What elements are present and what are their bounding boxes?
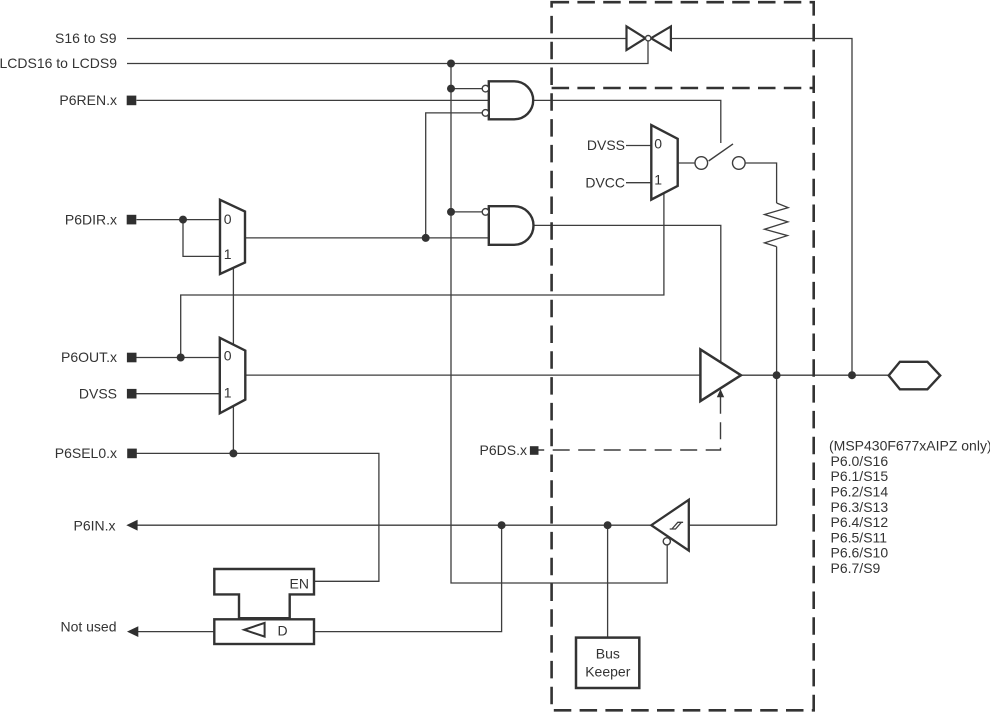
wire LCDS16 to LCDS9	[127, 41, 648, 63]
wire mux M1 output to AND U2 lower input	[245, 237, 489, 239]
wire mux M3 output to switch	[678, 162, 695, 164]
wire P6OUT branch to mux M3 select	[181, 194, 664, 358]
schmitt trigger input buffer U4	[651, 500, 689, 551]
wire S16 to S9 input	[127, 38, 626, 40]
junction LCDS line	[447, 60, 455, 68]
svg-text:P6.7/S9: P6.7/S9	[831, 560, 881, 576]
mux M3 (DVSS/DVCC pull select)	[651, 125, 677, 200]
wire select mux M2 to P6SEL line	[232, 406, 234, 453]
svg-text:P6OUT.x: P6OUT.x	[61, 349, 117, 365]
wire P6DIR branch to mux M1 input 1	[183, 220, 220, 257]
svg-text:1: 1	[224, 246, 232, 262]
AND gate U2 (driver enable)	[489, 206, 534, 245]
wire DVSS to mux M3 input 0	[626, 145, 651, 147]
wire bus keeper to P6IN line	[607, 525, 609, 637]
wire D latch to Not used arrow	[138, 631, 215, 633]
wire LCDS vertical to input buffer enable	[451, 64, 667, 584]
svg-text:P6.0/S16: P6.0/S16	[831, 453, 889, 469]
junction pad line / S16	[848, 371, 856, 379]
U1 input bubble bottom	[482, 110, 489, 117]
switch S1 right contact	[733, 157, 746, 170]
wire switch to resistor	[745, 163, 777, 203]
wire select mux M1 to mux M2	[232, 268, 234, 345]
svg-text:Not used: Not used	[60, 618, 116, 634]
svg-text:S16 to S9: S16 to S9	[55, 30, 117, 46]
svg-text:1: 1	[224, 385, 232, 401]
wire D latch input from pad line	[315, 525, 502, 631]
wire driver output pad line	[741, 374, 889, 376]
wire P6SEL0.x to latch EN	[137, 453, 379, 581]
svg-text:P6.1/S15: P6.1/S15	[831, 468, 889, 484]
terminal square DVSS	[127, 389, 137, 399]
wire S16 switch output to pad	[671, 39, 852, 376]
wire DVSS to mux M2 input 1	[137, 393, 220, 395]
dashed module boundary box	[552, 2, 814, 710]
wire LCDS to U2 top bubble	[451, 211, 482, 213]
terminal square P6DS	[530, 446, 539, 455]
svg-text:DVSS: DVSS	[79, 385, 117, 401]
bus keeper box	[576, 638, 639, 688]
U4 hysteresis symbol	[670, 522, 683, 529]
svg-text:P6DS.x: P6DS.x	[480, 442, 527, 458]
wire mux M2 output to output driver	[245, 374, 700, 376]
svg-text:P6.2/S14: P6.2/S14	[831, 484, 889, 500]
U4 enable bubble	[663, 538, 670, 545]
arrow Not used	[127, 626, 138, 637]
svg-text:Keeper: Keeper	[585, 664, 630, 680]
resistor R1	[765, 203, 789, 247]
analog switch S2 center circle	[646, 36, 651, 41]
wire P6OUT.x to mux M2 input 0	[137, 357, 220, 359]
svg-text:P6DIR.x: P6DIR.x	[65, 211, 117, 227]
wire DVCC to mux M3 input 1	[626, 182, 651, 184]
switch S1 left contact	[695, 157, 708, 170]
svg-text:P6REN.x: P6REN.x	[59, 92, 117, 108]
pad hexagon	[889, 362, 941, 390]
latch clock triangle	[244, 623, 264, 637]
terminal square P6DIR	[127, 215, 137, 225]
svg-text:Bus: Bus	[596, 646, 620, 662]
junction mux M1 output	[422, 234, 430, 242]
svg-text:P6.6/S10: P6.6/S10	[831, 545, 889, 561]
junction pad line / resistor	[773, 371, 781, 379]
junction P6IN / bus keeper	[604, 521, 612, 529]
svg-text:(MSP430F677xAIPZ only): (MSP430F677xAIPZ only)	[829, 437, 990, 453]
svg-text:P6.3/S13: P6.3/S13	[831, 499, 889, 515]
junction P6SEL	[229, 449, 237, 457]
U1 input bubble top	[482, 85, 489, 92]
wire P6IN.x line	[137, 524, 651, 526]
svg-text:LCDS16 to LCDS9: LCDS16 to LCDS9	[0, 55, 117, 71]
wire P6DIR.x to mux M1 input 0	[137, 219, 221, 221]
arrow P6DS into driver	[717, 389, 724, 397]
output driver U3	[700, 349, 741, 401]
svg-text:D: D	[278, 622, 288, 638]
svg-text:EN: EN	[290, 575, 309, 591]
wire resistor bottom to pad line and schmitt	[776, 247, 778, 526]
latch EN block (T shape)	[214, 569, 314, 618]
svg-text:DVSS: DVSS	[587, 137, 625, 153]
svg-text:0: 0	[654, 135, 662, 151]
svg-text:1: 1	[654, 172, 662, 188]
arrow P6IN	[126, 520, 137, 531]
wire U1 output to switch control	[533, 100, 721, 143]
svg-text:P6.4/S12: P6.4/S12	[831, 514, 889, 530]
wire schmitt input from pad	[689, 524, 777, 526]
switch S1 lever	[709, 144, 733, 161]
mux M1 (P6DIR)	[220, 200, 245, 274]
U2 input bubble	[482, 209, 489, 216]
wire mux M1 output branch to U1 bottom bubble	[426, 113, 483, 238]
wire P6DS.x dashed control	[539, 397, 721, 450]
svg-text:0: 0	[224, 348, 232, 364]
junction P6DIR	[179, 216, 187, 224]
svg-text:P6.5/S11: P6.5/S11	[831, 529, 888, 545]
junction U1 top input	[447, 85, 455, 93]
mux M2 (P6OUT)	[220, 338, 246, 414]
wire P6REN.x to AND gate U1	[137, 99, 489, 101]
wire U2 output to driver enable	[533, 225, 721, 362]
wire LCDS to U1 top bubble	[451, 88, 482, 90]
junction U2 top input	[447, 208, 455, 216]
terminal square P6REN	[127, 96, 137, 106]
analog switch S2 right triangle	[651, 26, 671, 50]
terminal square P6SEL0	[127, 449, 137, 459]
junction P6IN / D input	[498, 521, 506, 529]
svg-text:P6IN.x: P6IN.x	[73, 518, 115, 534]
svg-text:P6SEL0.x: P6SEL0.x	[55, 445, 117, 461]
svg-text:DVCC: DVCC	[585, 174, 625, 190]
analog switch S2 (bowtie) left triangle	[627, 26, 646, 50]
junction P6OUT	[177, 354, 185, 362]
AND gate U1 (pullup enable)	[489, 81, 533, 119]
latch D box	[214, 619, 314, 644]
svg-text:0: 0	[224, 211, 232, 227]
terminal square P6OUT	[127, 353, 137, 363]
dashed divider line	[552, 87, 814, 90]
